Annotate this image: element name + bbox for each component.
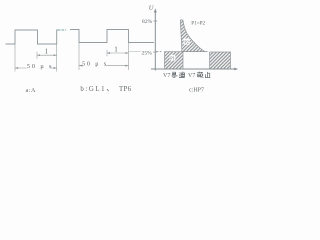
svg-text:P1=P2: P1=P2 bbox=[191, 20, 205, 26]
svg-text:1: 1 bbox=[45, 48, 49, 56]
svg-text:b:GL1: b:GL1 bbox=[80, 86, 106, 93]
svg-text:c:HP7: c:HP7 bbox=[189, 88, 204, 94]
svg-text:TP6: TP6 bbox=[119, 86, 132, 93]
svg-text:50 μ s: 50 μ s bbox=[82, 61, 108, 68]
svg-text:25%: 25% bbox=[142, 50, 153, 56]
svg-text:P2: P2 bbox=[184, 39, 188, 44]
svg-text:50 μ s: 50 μ s bbox=[27, 63, 53, 70]
svg-text:V7: V7 bbox=[188, 73, 195, 79]
svg-text:82%: 82% bbox=[142, 19, 153, 25]
svg-text:V7: V7 bbox=[163, 73, 170, 79]
svg-text:1: 1 bbox=[114, 46, 118, 54]
svg-text:a:A: a:A bbox=[26, 87, 36, 94]
svg-text:P1: P1 bbox=[170, 55, 174, 60]
